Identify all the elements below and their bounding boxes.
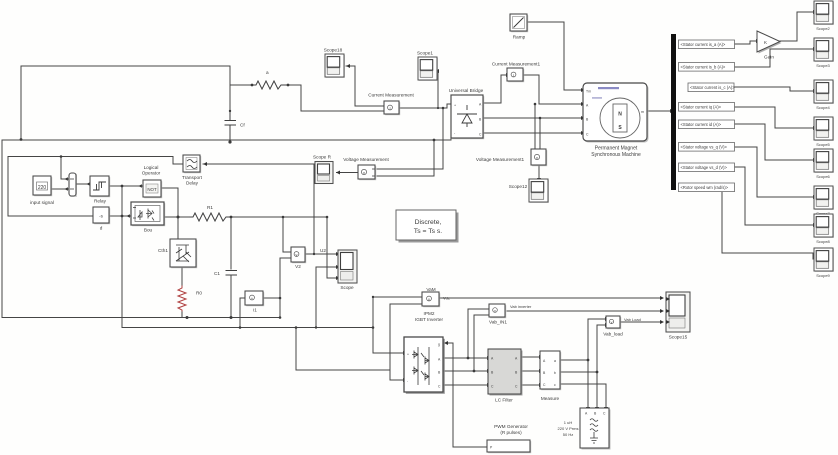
svg-text:Synchronous Machine: Synchronous Machine xyxy=(591,152,641,158)
scope Scope6 xyxy=(814,149,834,179)
wire Bou to R1 xyxy=(165,216,190,218)
wire voltage measurement in1 xyxy=(377,108,443,169)
PWM IGBT inverter xyxy=(404,311,445,394)
svg-text:Scope18: Scope18 xyxy=(324,48,343,53)
wire dc return long line xyxy=(2,136,451,140)
wire scope in1 feed xyxy=(314,253,336,255)
wire b6 to scope7 xyxy=(735,147,813,197)
wire Vab meter in2 xyxy=(390,303,422,305)
svg-text:R0: R0 xyxy=(196,291,202,296)
wire inverter C out xyxy=(444,384,487,386)
wire node to current measurement xyxy=(301,110,383,112)
svg-text:PWM Generator: PWM Generator xyxy=(494,424,528,429)
svg-text:Scope8: Scope8 xyxy=(816,239,830,244)
svg-text:C1: C1 xyxy=(214,271,220,276)
scope Scope12 xyxy=(509,179,549,203)
wire top loop left vertical xyxy=(20,66,22,139)
svg-text:<Stator voltage vs_q (V)>: <Stator voltage vs_q (V)> xyxy=(681,145,728,150)
wire measure to source C xyxy=(561,384,606,407)
bus signal label 2 xyxy=(679,63,735,72)
svg-text:<Stator voltage vs_d (V)>: <Stator voltage vs_d (V)> xyxy=(681,165,728,170)
wire d to Bou xyxy=(110,215,130,217)
svg-text:a: a xyxy=(266,70,269,75)
svg-text:+: + xyxy=(454,104,456,108)
wire b8 to scope9 xyxy=(722,191,813,259)
svg-text:d: d xyxy=(100,226,103,231)
svg-text:NOT: NOT xyxy=(147,187,157,192)
wire current measurement1 to PMSM A xyxy=(524,75,581,104)
svg-text:v: v xyxy=(611,320,613,324)
svg-text:Logical: Logical xyxy=(144,165,159,170)
wire feedback drop to mux xyxy=(61,157,68,180)
wire bridge A to current measurement1 xyxy=(484,75,506,103)
scope Scope2 xyxy=(814,1,834,31)
svg-text:Current Measurement1: Current Measurement1 xyxy=(492,62,541,67)
wire R1 output row xyxy=(231,216,327,218)
scope Scope4 xyxy=(814,80,834,110)
svg-text:Vdc: Vdc xyxy=(443,296,450,301)
svg-text:K: K xyxy=(764,40,767,45)
wire line A riser to V2 xyxy=(280,258,291,318)
svg-text:220 V Prms: 220 V Prms xyxy=(558,426,579,431)
svg-text:U2: U2 xyxy=(320,248,326,253)
svg-text:Scope6: Scope6 xyxy=(816,174,830,179)
svg-text:220: 220 xyxy=(38,185,47,191)
svg-text:Scope R: Scope R xyxy=(313,155,332,160)
current measurement i1 xyxy=(245,291,264,313)
bus signal label 3 xyxy=(688,83,735,92)
svg-text:Measure: Measure xyxy=(541,396,560,401)
svg-text:<Rotor speed wm (rad/s)>: <Rotor speed wm (rad/s)> xyxy=(681,185,729,190)
wire voltage measurement in2 xyxy=(377,140,434,176)
svg-text:Universal Bridge: Universal Bridge xyxy=(449,88,484,93)
current measurement xyxy=(368,93,414,116)
wire transport delay input xyxy=(203,163,314,165)
universal bridge xyxy=(449,88,484,139)
svg-text:R1: R1 xyxy=(207,205,213,210)
three-phase source xyxy=(558,408,611,450)
wire LC to measure 3 xyxy=(522,384,539,386)
source block 220 xyxy=(30,176,54,205)
bus signal label 8 xyxy=(679,183,735,192)
arrowheads at block inputs xyxy=(346,64,350,68)
svg-text:<Stator current id (A)>: <Stator current id (A)> xyxy=(681,122,722,127)
wire Vab_IN1 in1 riser xyxy=(468,309,489,358)
svg-text:v: v xyxy=(494,309,496,313)
svg-text:Permanent Magnet: Permanent Magnet xyxy=(595,146,638,152)
wire feedback line from transport delay xyxy=(8,157,183,165)
svg-text:Relay: Relay xyxy=(94,199,107,204)
wire ramp to PMSM Tm xyxy=(528,22,581,90)
wire VM1 to scope12 xyxy=(538,166,540,178)
wire scope in3 feed xyxy=(327,217,336,278)
svg-text:Scope15: Scope15 xyxy=(669,335,688,340)
junction dots xyxy=(20,138,23,141)
svg-text:LC Filter: LC Filter xyxy=(495,398,513,403)
svg-text:Gain: Gain xyxy=(764,55,774,60)
wire relay branch vertical xyxy=(121,186,123,328)
svg-text:V2: V2 xyxy=(295,264,301,269)
scope Scope5 xyxy=(814,117,834,147)
bus signal label 7 xyxy=(679,163,735,172)
wire LC to measure 2 xyxy=(522,370,539,372)
svg-text:Voltage Measurement1: Voltage Measurement1 xyxy=(476,157,525,162)
svg-text:Ts = Ts s.: Ts = Ts s. xyxy=(414,228,443,235)
wire bridge C to PMSM xyxy=(484,132,581,134)
wire Vab_IN1 in2 riser xyxy=(474,315,489,371)
svg-text:Scope2: Scope2 xyxy=(816,26,830,31)
wire scope18 tap xyxy=(346,66,384,106)
wire b3 to scope4 xyxy=(734,87,813,91)
resistor a xyxy=(253,81,288,89)
bus selector bar xyxy=(671,34,676,190)
svg-text:Discrete,: Discrete, xyxy=(415,219,442,226)
svg-text:IGBT Inverter: IGBT Inverter xyxy=(415,317,443,322)
wire gain to scope2 xyxy=(780,12,813,41)
scope ScopeR xyxy=(313,155,333,184)
wire inverter B out xyxy=(444,370,487,372)
svg-text:Tm: Tm xyxy=(586,90,591,94)
svg-text:m: m xyxy=(641,110,644,114)
wire Vab_load out to scope15 xyxy=(621,321,660,323)
wire source A vertical xyxy=(587,319,589,407)
wire mux to relay xyxy=(76,183,90,185)
svg-text:Cf: Cf xyxy=(240,123,245,128)
wire measure to source B xyxy=(561,371,597,373)
wire to d block xyxy=(8,215,93,217)
scope Scope8 xyxy=(814,214,834,244)
bus signal label 4 xyxy=(679,103,735,112)
svg-text:Ramp: Ramp xyxy=(513,35,526,40)
svg-text:<Stator current iq (A)>: <Stator current iq (A)> xyxy=(681,105,722,110)
discrete powergui block xyxy=(396,210,459,243)
svg-text:v: v xyxy=(428,297,430,301)
svg-text:g: g xyxy=(438,343,440,347)
wire V2 output to feedback node xyxy=(305,253,314,255)
subsystem Bou xyxy=(131,202,165,233)
svg-text:50 Hz: 50 Hz xyxy=(563,432,573,437)
LC filter xyxy=(488,349,523,403)
PMSM machine xyxy=(583,83,649,158)
wire top loop horizontal xyxy=(21,65,230,67)
svg-text:v: v xyxy=(536,155,538,160)
relay xyxy=(90,176,110,204)
svg-text:Scope12: Scope12 xyxy=(509,184,528,189)
mux xyxy=(69,173,77,197)
current measurement1 xyxy=(492,62,541,83)
voltage measurement xyxy=(343,157,389,180)
wire VM to ScopeR xyxy=(336,172,358,174)
wire capacitor Cf branch xyxy=(229,85,231,119)
svg-text:<Stator current is_a (A)>: <Stator current is_a (A)> xyxy=(681,42,726,47)
wire relay to NOT xyxy=(109,185,142,187)
wire LC to measure 1 xyxy=(522,356,539,358)
svg-text:Operator: Operator xyxy=(142,171,161,176)
svg-text:(R pulses): (R pulses) xyxy=(500,430,522,435)
svg-text:b: b xyxy=(554,371,556,375)
svg-text:input signal: input signal xyxy=(30,200,54,205)
wire measure to source A xyxy=(561,359,588,361)
resistor R1 xyxy=(190,213,231,221)
svg-text:Vab inverter: Vab inverter xyxy=(510,304,532,309)
capacitor C1 xyxy=(226,271,237,276)
wire C1 to line A xyxy=(230,275,232,318)
wire line B riser to Vab meter xyxy=(373,297,422,328)
svg-text:Scope3: Scope3 xyxy=(816,63,830,68)
measure block xyxy=(540,351,561,401)
voltage measurement Vab_IN1 xyxy=(489,304,532,325)
scope Scope1 xyxy=(417,51,438,81)
thyristor block Cth1 xyxy=(158,239,202,296)
wire VM1 tap2 xyxy=(539,118,541,149)
svg-text:+: + xyxy=(407,353,409,357)
wire inverter A out xyxy=(444,357,487,359)
wire line B to inverter in2 xyxy=(296,328,390,371)
scope Scope15 xyxy=(666,292,690,340)
svg-text:Vab_IN1: Vab_IN1 xyxy=(489,320,507,325)
scope Scope7 xyxy=(814,186,834,216)
svg-text:Current Measurement: Current Measurement xyxy=(368,93,414,98)
voltage measurement Vab_load xyxy=(603,316,641,337)
wire Vab_load in2 xyxy=(597,324,605,326)
svg-text:Voltage Measurement: Voltage Measurement xyxy=(343,157,389,162)
wire PMSM m to bus xyxy=(648,110,670,112)
svg-text:-: - xyxy=(407,380,408,384)
wire left edge vertical xyxy=(1,140,3,318)
wire Vab_load in1 xyxy=(588,318,605,320)
svg-text:<Stator current is_c (A)>: <Stator current is_c (A)> xyxy=(690,85,735,90)
svg-text:Vab_load: Vab_load xyxy=(603,332,623,337)
svg-text:<Stator current is_b (A)>: <Stator current is_b (A)> xyxy=(681,65,726,70)
wire left control vertical xyxy=(7,157,9,217)
svg-text:N: N xyxy=(618,112,622,118)
wire scope1 tap xyxy=(435,71,438,108)
wire b7 to scope8 xyxy=(735,167,813,225)
bus signal label 5 xyxy=(679,120,735,129)
svg-text:Delay: Delay xyxy=(186,181,199,186)
svg-text:Cth1: Cth1 xyxy=(158,248,168,253)
wire NOT to Cth1 gate xyxy=(177,188,179,238)
svg-text:Transport: Transport xyxy=(182,175,203,180)
wire riser to inverter in1 xyxy=(373,297,403,353)
scope Scope9 xyxy=(814,248,834,278)
svg-text:1 uH: 1 uH xyxy=(564,420,573,425)
voltage measurement V2 xyxy=(291,247,326,269)
gain triangle xyxy=(757,31,782,60)
wire line B xyxy=(122,327,373,329)
resistor R0 red xyxy=(178,286,186,312)
svg-text:IPM2: IPM2 xyxy=(424,311,435,316)
wire feedback vertical x314 xyxy=(313,164,315,254)
wire top loop right drop xyxy=(229,66,231,85)
wire current measurement output to bridge xyxy=(400,104,450,108)
svg-text:VaM: VaM xyxy=(426,287,435,292)
svg-text:v: v xyxy=(363,170,365,175)
svg-text:c: c xyxy=(554,383,556,387)
svg-text:Scope4: Scope4 xyxy=(816,105,830,110)
svg-text:i1: i1 xyxy=(253,308,257,313)
wire scope in2 riser xyxy=(316,267,336,328)
voltage measurement VaM xyxy=(422,287,450,307)
svg-text:Vab Load: Vab Load xyxy=(624,317,641,322)
wire VM1 tap1 xyxy=(534,104,536,149)
wire bus tap b1 to gain xyxy=(735,41,756,44)
PWM generator xyxy=(487,424,531,453)
wire pwm generator to inverter gate xyxy=(444,343,487,447)
svg-text:Scope1: Scope1 xyxy=(417,51,433,56)
svg-text:a: a xyxy=(554,359,556,363)
transport delay xyxy=(182,155,203,186)
wire measurement i1 input riser xyxy=(240,298,245,328)
wire resistor a feed xyxy=(230,84,253,86)
svg-text:v: v xyxy=(296,253,298,257)
svg-text:Scope5: Scope5 xyxy=(816,142,830,147)
wire NOT output xyxy=(162,187,178,189)
scope Scope xyxy=(338,250,357,290)
wire bottom line A xyxy=(2,317,280,319)
wire b2 to scope3 xyxy=(735,49,813,67)
svg-text:Scope: Scope xyxy=(340,285,354,290)
wire resistor a to node xyxy=(288,85,301,111)
wire V2 in1 tap xyxy=(283,217,291,252)
wire R0 to line A xyxy=(181,312,183,318)
bus signal label 1 xyxy=(679,40,735,49)
scope Scope3 xyxy=(814,38,834,68)
gain block d xyxy=(93,207,110,231)
wire Vab_IN1 out to scope15 xyxy=(507,310,660,312)
wire Cth1 to R0 xyxy=(181,268,183,286)
wire b5 to scope6 xyxy=(735,124,813,160)
bus signal label 6 xyxy=(679,143,735,152)
voltage measurement1 xyxy=(476,149,547,166)
capacitor Cf xyxy=(225,112,236,142)
wire source B vertical xyxy=(596,325,598,407)
wire bridge B to PMSM xyxy=(484,117,581,119)
wire 220 to mux xyxy=(51,188,68,190)
wire measurement i1 output xyxy=(264,297,280,299)
wire x390 vertical xyxy=(390,304,403,380)
wire Vdc to scope15 xyxy=(440,297,660,299)
svg-text:Scope9: Scope9 xyxy=(816,273,830,278)
wire Cf to return line xyxy=(229,140,231,142)
wire capacitor C1 branch xyxy=(230,217,232,269)
ramp xyxy=(510,14,528,40)
logical operator NOT xyxy=(142,165,162,198)
scope Scope18 xyxy=(324,48,345,78)
wire b4 to scope5 xyxy=(735,107,813,128)
svg-text:Bou: Bou xyxy=(144,228,153,233)
